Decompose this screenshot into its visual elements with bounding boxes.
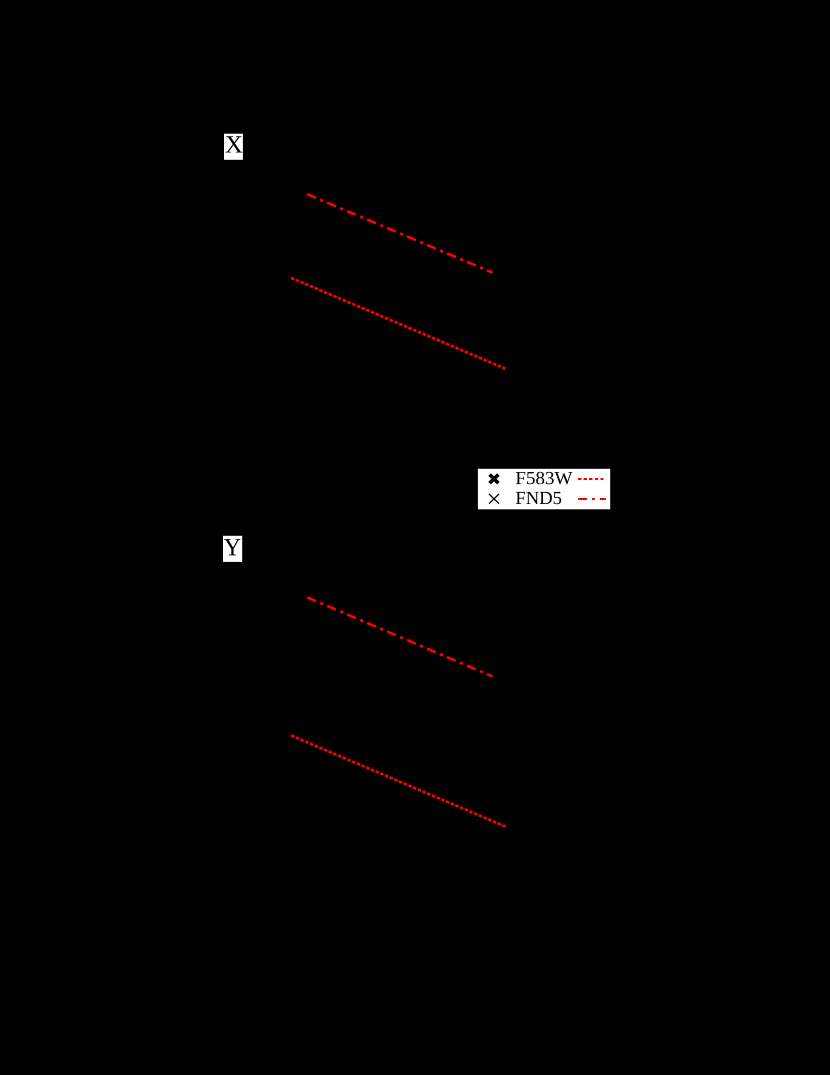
wire L3 (FND5 dash-dot line, bottom panel) bbox=[307, 597, 492, 676]
wire L4 (F583W dotted line, bottom panel) bbox=[291, 736, 506, 827]
node Y (panel label, white box) bbox=[223, 536, 242, 562]
marker bold cross F583W bbox=[490, 475, 499, 484]
legend box bbox=[478, 469, 610, 510]
marker thin cross FND5 bbox=[489, 494, 499, 504]
legend line sample dotted bbox=[578, 478, 604, 480]
legend line sample dash-dot bbox=[578, 498, 606, 500]
wire L1 (FND5 dash-dot line, top panel) bbox=[307, 194, 493, 273]
wire L2 (F583W dotted line, top panel) bbox=[291, 278, 505, 369]
label F583W bbox=[516, 472, 573, 485]
label FND5 bbox=[516, 492, 561, 504]
node X (panel label, white box) bbox=[224, 134, 243, 160]
